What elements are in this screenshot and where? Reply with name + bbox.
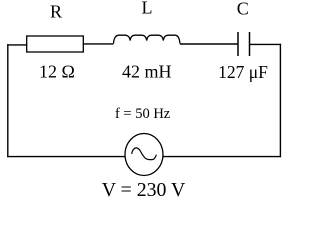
svg-text:f = 50 Hz: f = 50 Hz <box>115 106 171 122</box>
wire right vertical <box>279 44 281 157</box>
inductor L1 <box>114 35 180 43</box>
resistor R1 <box>27 36 84 52</box>
svg-text:12 Ω: 12 Ω <box>39 62 75 82</box>
wire resistor to inductor <box>83 43 113 45</box>
svg-text:V = 230 V: V = 230 V <box>102 179 186 201</box>
wire inductor to capacitor <box>180 43 238 45</box>
svg-text:C: C <box>237 0 249 19</box>
capacitor C1 left plate <box>237 32 239 56</box>
svg-text:L: L <box>142 0 153 18</box>
svg-text:42 mH: 42 mH <box>122 62 172 82</box>
AC source V1 circle <box>125 134 163 176</box>
wire capacitor to top-right corner <box>250 43 282 45</box>
AC source sine wave <box>132 148 157 160</box>
svg-text:R: R <box>50 2 62 22</box>
wire left vertical <box>7 44 9 157</box>
wire bottom right segment <box>163 156 282 158</box>
wire bottom left segment <box>7 156 125 158</box>
wire top-left (left corner to resistor) <box>7 44 27 46</box>
svg-text:127 μF: 127 μF <box>218 62 268 82</box>
capacitor C1 right plate <box>249 32 251 56</box>
